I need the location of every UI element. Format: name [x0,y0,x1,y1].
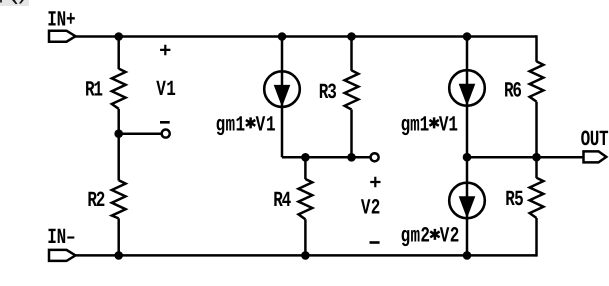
wire V1 tap [119,132,162,135]
resistor R2 [112,180,126,218]
svg-text:R2: R2 [87,189,105,213]
wire R6 branch top corner [535,37,536,62]
label R6 [504,79,522,103]
svg-text:IN–: IN– [47,225,75,249]
svg-text:OUT: OUT [581,127,609,151]
wire R1 to tap [117,109,120,134]
current source G1 gm1*V1 [264,37,300,158]
label IN+ [47,8,75,32]
label IN- [47,225,75,249]
terminal V2 plus open circle [371,153,379,161]
wire R2 to bottom rail [117,218,120,255]
svg-text:gm1: gm1 [401,113,430,137]
label V2 minus sign [370,241,380,244]
label gm1*V1 left [216,113,276,137]
label R5 [505,188,524,212]
label V2 [361,196,381,220]
node bottom-left junction [114,251,123,260]
label R3 [319,80,337,104]
label V1 [156,77,176,101]
wire R5 branch upper [535,157,538,178]
wire R5 to bottom rail [535,218,538,257]
node R1-R2 junction [114,129,123,138]
svg-text:R3: R3 [319,80,337,104]
wire bottom rail [76,254,537,257]
node R4 top junction [301,153,310,162]
label V1 minus sign [160,121,170,124]
svg-text:IN+: IN+ [47,8,75,32]
label OUT [581,127,609,151]
svg-text:R1: R1 [85,78,103,102]
wire top rail [74,35,537,38]
label V2 plus sign [370,177,380,188]
wire R4 branch upper [304,157,307,179]
node output junction [532,153,541,162]
wire V2 row left segment [282,156,371,159]
node R3 bottom junction [347,153,356,162]
wire R6 to output node [535,102,538,158]
node output row left junction [463,153,472,162]
svg-text:V1: V1 [156,77,176,101]
wire R2 branch upper [117,134,120,181]
svg-text:R6: R6 [504,79,522,103]
resistor R6 [530,61,544,101]
label gm2*V2 [401,224,460,248]
label gm1*V1 right [401,113,458,137]
label R4 [273,188,291,212]
node G3 bottom junction [463,251,472,260]
svg-text:R4: R4 [273,188,291,212]
svg-text:V2: V2 [440,224,460,248]
terminal IN- [49,250,76,261]
resistor R4 [299,179,313,219]
wire output node to OUT terminal [537,156,585,159]
svg-text:V2: V2 [361,196,381,220]
node R4 bottom junction [301,251,310,260]
current source G2 gm1*V1 [449,37,485,158]
wire left rail upper [117,37,120,70]
svg-text:gm1: gm1 [216,113,246,137]
wire R3 branch upper [350,37,353,71]
terminal V1 minus open circle [162,130,170,138]
current source G3 gm2*V2 [449,157,485,255]
svg-text:V1: V1 [439,113,458,137]
svg-text:V1: V1 [256,113,276,137]
node G1 top junction [278,32,287,41]
node G2 top junction [463,32,472,41]
wire R3 to V2 row [350,110,353,158]
label R2 [87,189,105,213]
label R1 [85,78,103,102]
terminal OUT [584,151,607,162]
node top-left junction [114,32,123,41]
resistor R5 [530,178,544,218]
resistor R3 [345,70,359,109]
svg-text:R5: R5 [505,188,524,212]
wire output row segment [467,156,537,159]
node R3 top junction [347,32,356,41]
label V1 plus sign [160,45,170,56]
terminal IN+ [49,31,76,42]
resistor R1 [112,69,126,109]
svg-text:gm2: gm2 [401,224,430,248]
wire R4 to bottom rail [304,219,307,255]
